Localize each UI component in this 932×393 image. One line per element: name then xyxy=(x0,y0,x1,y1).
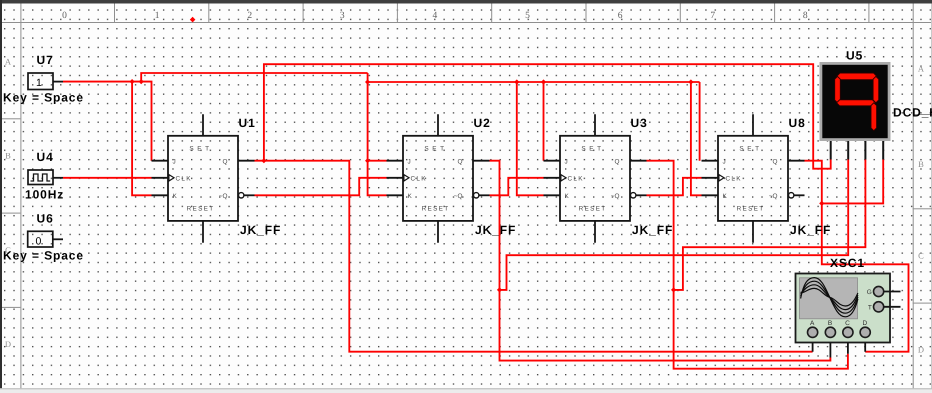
label U4 xyxy=(37,150,54,164)
svg-text:2: 2 xyxy=(247,11,252,21)
junction U7 net to top rail branch xyxy=(139,79,144,84)
label U1 xyxy=(239,116,256,130)
label JK_FF for U1 xyxy=(240,223,281,237)
label Key = Space for U6 xyxy=(3,249,84,263)
svg-text:SET: SET xyxy=(739,146,762,153)
svg-text:A: A xyxy=(918,64,925,74)
svg-text:J: J xyxy=(173,159,176,166)
svg-text:C: C xyxy=(845,320,850,327)
svg-text:CLK: CLK xyxy=(568,176,584,183)
svg-text:7: 7 xyxy=(710,11,715,21)
svg-text:Q: Q xyxy=(615,159,620,166)
wire rail drop to U2.J and U2.K xyxy=(368,73,387,195)
svg-text:Key = Space: Key = Space xyxy=(3,90,84,104)
svg-text:U3: U3 xyxy=(631,116,648,130)
svg-text:CLK: CLK xyxy=(726,176,742,183)
svg-text:JK_FF: JK_FF xyxy=(475,223,516,237)
label U8 xyxy=(789,116,806,130)
svg-text:T: T xyxy=(868,305,872,312)
svg-text:G: G xyxy=(867,289,872,296)
flip-flop U2 (JK_FF) xyxy=(387,114,490,242)
svg-text:Q: Q xyxy=(458,159,463,166)
svg-text:RESET: RESET xyxy=(187,205,215,212)
wire U2.~Q to U3.CLK xyxy=(490,178,544,196)
svg-text:JK_FF: JK_FF xyxy=(632,223,673,237)
junction U1.Q to display rail branch xyxy=(261,158,266,163)
svg-text:~Q: ~Q xyxy=(769,193,778,200)
svg-text:K: K xyxy=(565,193,570,200)
label 100Hz for U4 xyxy=(25,187,64,201)
svg-text:Q: Q xyxy=(223,159,228,166)
svg-text:D: D xyxy=(918,344,924,354)
svg-text:1: 1 xyxy=(36,77,42,89)
svg-text:5: 5 xyxy=(525,11,530,21)
svg-text:XSC1: XSC1 xyxy=(830,256,865,270)
label JK_FF for U8 xyxy=(790,223,831,237)
wire branch U7 to U1.K xyxy=(132,82,151,196)
wire rail drop to U3.K xyxy=(517,82,544,195)
svg-text:U6: U6 xyxy=(37,211,54,225)
svg-text:U8: U8 xyxy=(789,116,806,130)
junction U2.J feed xyxy=(365,158,370,163)
wire U3.~Q to U8.CLK xyxy=(647,178,702,196)
oscilloscope XSC1 xyxy=(796,274,901,358)
seven-segment display U5 showing digit 9 xyxy=(820,62,891,160)
label U7 xyxy=(37,53,54,67)
junction logic-1 rail at U8.K drop xyxy=(688,79,693,84)
svg-text:Key = Space: Key = Space xyxy=(3,249,84,263)
svg-text:JK_FF: JK_FF xyxy=(790,223,831,237)
flip-flop U1 (JK_FF) xyxy=(152,114,255,242)
svg-text:B: B xyxy=(918,159,924,169)
svg-text:JK_FF: JK_FF xyxy=(240,223,281,237)
svg-text:U5: U5 xyxy=(846,49,863,63)
junction logic-1 rail at U2 drop xyxy=(365,79,370,84)
wire U3.Q branch to display pin 3 xyxy=(674,160,866,290)
wire rail end drop to U8.J xyxy=(699,82,701,161)
wire branch U7 up to top rail xyxy=(141,73,367,82)
svg-text:0: 0 xyxy=(62,11,67,21)
svg-text:U1: U1 xyxy=(239,116,256,130)
label JK_FF for U3 xyxy=(632,223,673,237)
svg-text:A: A xyxy=(810,320,815,327)
svg-text:8: 8 xyxy=(803,11,808,21)
svg-text:CLK: CLK xyxy=(176,176,192,183)
svg-text:3: 3 xyxy=(340,11,345,21)
svg-text:U4: U4 xyxy=(37,150,54,164)
svg-text:RESET: RESET xyxy=(579,205,607,212)
junction U2.Q display branch xyxy=(497,287,502,292)
svg-text:~Q: ~Q xyxy=(611,193,620,200)
svg-text:B: B xyxy=(5,151,11,161)
wire U8.Q to scope channel D xyxy=(805,161,909,352)
svg-text:A: A xyxy=(5,57,12,67)
wire U1.Q to scope channel A xyxy=(255,161,813,352)
svg-text:D: D xyxy=(5,339,11,349)
svg-text:~Q: ~Q xyxy=(454,193,463,200)
wire U4 clock output to U1.CLK xyxy=(63,177,152,179)
svg-text:J: J xyxy=(723,159,726,166)
svg-text:~Q: ~Q xyxy=(219,193,228,200)
svg-text:CLK: CLK xyxy=(411,176,427,183)
label U2 xyxy=(474,116,491,130)
svg-text:RESET: RESET xyxy=(737,205,765,212)
svg-text:K: K xyxy=(408,193,413,200)
wire logic-1 rail to U3/U8 xyxy=(368,81,700,83)
junction logic-1 rail at U3.J drop xyxy=(541,79,546,84)
svg-text:6: 6 xyxy=(618,11,623,21)
wire U1.~Q to U2.CLK xyxy=(255,178,387,196)
wire rail drop to U8.K xyxy=(691,82,702,195)
junction U7 net to U1.K branch xyxy=(130,79,135,84)
label JK_FF for U2 xyxy=(475,223,516,237)
svg-text:D: D xyxy=(862,320,867,327)
label XSC1 xyxy=(830,256,865,270)
wire U3.Q to scope channel C xyxy=(647,161,848,369)
svg-text:K: K xyxy=(723,193,728,200)
svg-text:0: 0 xyxy=(36,235,42,247)
svg-text:Q: Q xyxy=(773,159,778,166)
label U6 xyxy=(37,211,54,225)
svg-text:J: J xyxy=(408,159,411,166)
label Key = Space for U7 xyxy=(3,90,84,104)
svg-text:K: K xyxy=(173,193,178,200)
interactive digital constant U7 xyxy=(28,73,63,90)
flip-flop U3 (JK_FF) xyxy=(544,114,647,242)
svg-text:U7: U7 xyxy=(37,53,54,67)
wire U1.Q to display pin 1 xyxy=(264,64,831,169)
svg-text:SET: SET xyxy=(424,146,447,153)
svg-text:RESET: RESET xyxy=(422,205,450,212)
wire U7 output to U1.J (net 1) xyxy=(63,82,152,161)
svg-text:100Hz: 100Hz xyxy=(25,187,64,201)
clock source U4 100Hz xyxy=(28,170,63,185)
label U5 xyxy=(846,49,863,63)
svg-text:SET: SET xyxy=(189,146,212,153)
svg-text:U2: U2 xyxy=(474,116,491,130)
junction U8.Q display branch xyxy=(819,201,824,206)
wire U8.Q branch to display pin 4 xyxy=(822,160,883,204)
interactive digital constant U6 xyxy=(28,231,63,247)
svg-text:C: C xyxy=(918,250,924,260)
svg-text:1: 1 xyxy=(155,11,160,21)
svg-text:SET: SET xyxy=(581,146,604,153)
svg-text:J: J xyxy=(565,159,568,166)
label U3 xyxy=(631,116,648,130)
wire rail drop to U3.J xyxy=(543,82,545,161)
label DCD_HEX for U5 xyxy=(893,106,932,120)
flip-flop U8 (JK_FF) xyxy=(702,114,805,242)
svg-text:DCD_H: DCD_H xyxy=(893,106,932,120)
svg-text:4: 4 xyxy=(433,11,438,21)
junction logic-1 rail at U3.K drop xyxy=(514,79,519,84)
wire U2.Q to scope channel B xyxy=(490,161,831,361)
svg-text:B: B xyxy=(828,320,832,327)
wire U2.Q branch to display pin 2 xyxy=(500,160,849,290)
junction U3.Q display branch xyxy=(671,287,676,292)
